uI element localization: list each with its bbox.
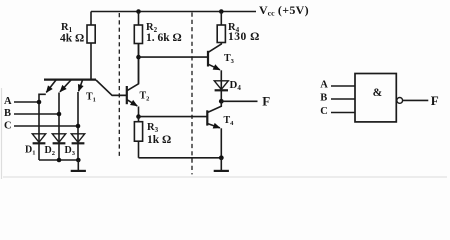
- svg-text:T2: T2: [140, 91, 150, 103]
- svg-text:T1: T1: [86, 92, 96, 104]
- resistor R1: [87, 12, 95, 80]
- svg-text:A: A: [4, 96, 12, 107]
- wire input B: [14, 113, 59, 115]
- wire gate input B: [331, 98, 355, 100]
- transistor T2: [112, 44, 139, 117]
- dashed stage divider left: [118, 13, 120, 159]
- wire R3 to output ground: [139, 157, 222, 159]
- wire gate output: [403, 99, 429, 101]
- node T4 emitter ground junction: [219, 155, 224, 160]
- wire input column A down to D1: [38, 102, 40, 142]
- gate inversion bubble: [397, 98, 403, 104]
- label Vcc (+5V): [259, 3, 309, 18]
- label D1: [25, 145, 35, 157]
- label R2 value 1.6k: [146, 22, 182, 44]
- wire input A: [14, 101, 39, 103]
- node B junction: [57, 112, 62, 117]
- transistor T4: [207, 101, 221, 158]
- node T2 emitter / R3 top: [136, 114, 141, 119]
- svg-text:T4: T4: [224, 115, 235, 127]
- node rail-D3 junction: [76, 158, 81, 163]
- resistor R3: [134, 117, 142, 158]
- svg-text:D4: D4: [230, 79, 242, 92]
- wire output F: [221, 100, 257, 102]
- svg-text:T3: T3: [224, 53, 235, 65]
- svg-text:D1: D1: [25, 145, 35, 157]
- resistor R4: [217, 9, 225, 44]
- svg-text:Vcc (+5V): Vcc (+5V): [259, 3, 309, 18]
- node C junction: [76, 124, 81, 129]
- node F output junction: [219, 99, 224, 104]
- svg-text:R3: R3: [147, 122, 159, 134]
- svg-text:C: C: [4, 121, 12, 132]
- svg-text:C: C: [320, 106, 328, 117]
- diode D3: [71, 134, 84, 160]
- wire T3 base: [139, 56, 209, 58]
- wire gate input C: [331, 112, 355, 114]
- svg-text:A: A: [320, 80, 328, 91]
- label gate input C: [320, 106, 328, 117]
- svg-text:F: F: [262, 94, 270, 109]
- diode D1: [32, 134, 45, 160]
- wire input C: [14, 125, 78, 127]
- label T2: [140, 91, 150, 103]
- label D3: [65, 145, 76, 157]
- node A junction: [37, 100, 42, 105]
- wire gate input A: [331, 85, 355, 87]
- label R4 value 130: [228, 22, 260, 43]
- wire emitter1 jog to node A: [39, 94, 46, 102]
- label gate input A: [320, 80, 328, 91]
- label D2: [45, 145, 55, 157]
- node T2 collector branch: [136, 55, 141, 60]
- label R1 value 4k: [60, 22, 84, 45]
- svg-text:F: F: [431, 93, 439, 108]
- dashed stage divider right: [191, 13, 193, 175]
- transistor T3: [208, 43, 221, 90]
- label input A: [4, 96, 12, 107]
- label gate input B: [320, 92, 327, 103]
- label input B: [4, 108, 11, 119]
- wire scan streak left (faint artifact): [1, 88, 3, 179]
- label D4: [230, 79, 242, 92]
- gate U1 AND box: [355, 74, 396, 122]
- wire Vcc top rail: [91, 11, 256, 13]
- label T4: [224, 115, 235, 127]
- label gate output F: [431, 93, 439, 108]
- wire scan streak bottom (faint artifact): [3, 176, 447, 178]
- ground output stage: [214, 158, 229, 171]
- wire input column B down to D2: [58, 93, 60, 143]
- svg-text:1k Ω: 1k Ω: [147, 134, 171, 146]
- svg-text:&: &: [373, 87, 383, 99]
- label T1: [86, 92, 96, 104]
- svg-text:B: B: [4, 108, 11, 119]
- svg-text:B: B: [320, 92, 327, 103]
- resistor R2: [134, 9, 142, 84]
- svg-text:130 Ω: 130 Ω: [228, 31, 260, 43]
- wire input column C down to D3: [77, 92, 79, 142]
- diode D2: [52, 134, 65, 160]
- ground input stage: [71, 160, 86, 171]
- node rail-D2 junction: [57, 158, 62, 163]
- svg-text:4k Ω: 4k Ω: [60, 33, 84, 45]
- label input C: [4, 121, 12, 132]
- transistor T1 multi-emitter: [44, 80, 127, 96]
- svg-text:D2: D2: [45, 145, 55, 157]
- wire T4 base: [139, 116, 208, 118]
- svg-text:D3: D3: [65, 145, 76, 157]
- label R3 value 1k: [147, 122, 171, 146]
- wire diode common rail: [39, 159, 78, 161]
- diode D4: [214, 81, 228, 102]
- svg-text:1. 6k Ω: 1. 6k Ω: [146, 32, 182, 44]
- label F output: [262, 94, 270, 109]
- label T3: [224, 53, 235, 65]
